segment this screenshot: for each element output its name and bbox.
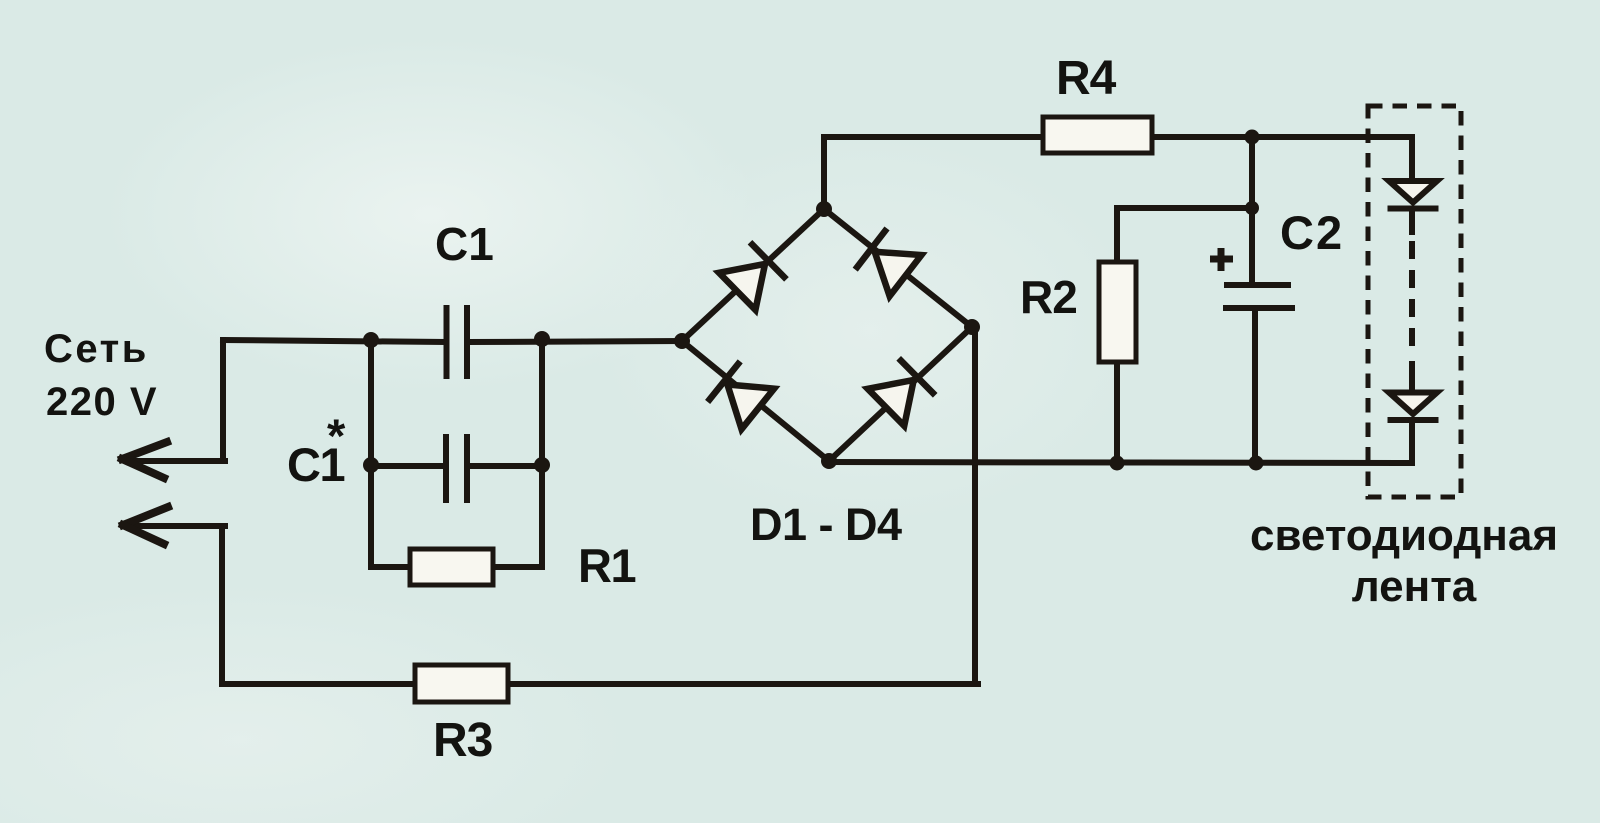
wire: below LED1 xyxy=(1409,211,1415,232)
node: bridge left xyxy=(674,333,690,349)
node: C1 top-right xyxy=(534,331,550,347)
wire: top-left horizontal to C1 left plate xyxy=(223,340,444,342)
wire: bridge arm left-top xyxy=(682,209,824,341)
wire: bridge top vertical xyxy=(821,137,827,209)
wire: right riser (975,684)-(975,327) xyxy=(972,327,978,684)
wire: (1252,208) down to C2 top xyxy=(1249,208,1255,285)
node: C1* left xyxy=(363,457,379,473)
wire: top to R4 xyxy=(824,134,1046,140)
wire: bottom DC rail xyxy=(829,462,1412,463)
resistor R2 xyxy=(1099,262,1136,362)
svg-text:R1: R1 xyxy=(578,539,635,592)
arrow 1 head xyxy=(122,442,167,478)
wire: above LED2 xyxy=(1409,364,1415,390)
wire: R4 to LED strip xyxy=(1149,134,1412,140)
wire: R1 row right xyxy=(490,564,542,570)
wire: C1* row left xyxy=(371,463,443,469)
resistor R4 xyxy=(1043,117,1152,153)
LED strip dashed box xyxy=(1368,106,1461,497)
wire: (1252,208) left to R2 column xyxy=(1117,205,1252,211)
diode D2 (top-right arm) xyxy=(855,228,921,296)
node: R4 output junction xyxy=(1245,130,1260,145)
wire: C1 right vertical (542,339)-(542,567) xyxy=(539,339,545,567)
wire: bridge arm left-bottom xyxy=(682,341,829,461)
capacitor C1 plates xyxy=(447,305,468,379)
node: C1 top-left xyxy=(363,332,379,348)
wire: left vertical 2 (222,526)-(222,684) xyxy=(219,526,225,684)
resistor R1 xyxy=(410,549,493,585)
diode D3 (left-bottom arm) xyxy=(708,361,774,429)
node: bridge top xyxy=(816,201,832,217)
node: R2 bottom junction xyxy=(1110,456,1125,471)
node: C1* right xyxy=(534,457,550,473)
svg-text:*: * xyxy=(327,409,346,462)
capacitor C2 plates xyxy=(1223,285,1295,308)
wire: R2 top lead xyxy=(1114,208,1120,265)
node: C2 bottom junction xyxy=(1249,456,1264,471)
wire: arrow1 shaft xyxy=(134,458,225,464)
LED 1 xyxy=(1388,181,1439,209)
svg-text:Сеть: Сеть xyxy=(44,327,149,371)
wire: bottom left to R3 xyxy=(222,681,418,687)
wire: R3 to right riser xyxy=(505,681,978,687)
svg-text:лента: лента xyxy=(1352,562,1477,611)
wire: LED strip entry vertical xyxy=(1409,137,1415,180)
svg-text:R4: R4 xyxy=(1056,52,1117,105)
wire: below LED2 xyxy=(1409,421,1415,463)
node: C2 top junction xyxy=(1245,201,1259,215)
wire: arrow2 shaft xyxy=(130,523,225,529)
wire: R1 row left xyxy=(371,564,413,570)
svg-text:D1 - D4: D1 - D4 xyxy=(750,499,902,550)
diode D4 (bottom-right arm) xyxy=(868,358,935,426)
diode D1 (left-top arm) xyxy=(719,242,786,310)
C2 plus sign xyxy=(1210,248,1233,271)
wire: junction (1252,137) down to (1252,208) xyxy=(1249,137,1255,208)
svg-text:220 V: 220 V xyxy=(46,380,158,424)
svg-text:R3: R3 xyxy=(433,714,492,767)
svg-text:R2: R2 xyxy=(1020,271,1077,323)
wire: C1* row right xyxy=(470,463,542,469)
resistor R3 xyxy=(415,665,508,702)
wire: bridge arm top-right xyxy=(824,209,972,327)
capacitor C1* plates xyxy=(446,434,467,503)
arrow 2 head xyxy=(123,507,168,544)
wire: C1 right plate to bridge left node xyxy=(469,341,683,342)
wire: C1 left vertical (371,340)-(371,567) xyxy=(368,340,374,567)
junction dots xyxy=(363,130,1264,474)
svg-text:светодиодная: светодиодная xyxy=(1250,511,1558,560)
node: bridge bottom xyxy=(821,453,837,469)
wire: dashed strip continuation xyxy=(1409,244,1415,360)
LED 2 xyxy=(1388,393,1439,421)
wire: C2 bottom lead xyxy=(1252,308,1258,463)
wire: left vertical (223,340)-(223,461) xyxy=(220,340,226,461)
wire: bridge arm bottom-right xyxy=(829,327,972,461)
svg-text:C1: C1 xyxy=(435,218,494,270)
node: bridge right xyxy=(964,319,980,335)
svg-text:C2: C2 xyxy=(1280,206,1344,259)
wire: R2 bottom lead xyxy=(1114,360,1120,463)
